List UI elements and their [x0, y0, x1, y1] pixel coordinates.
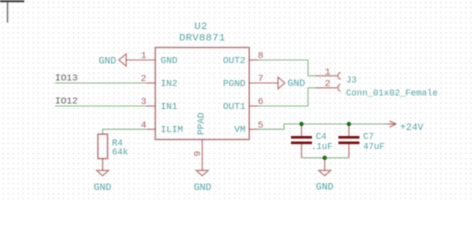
sheet corner marker: [0, 1, 24, 22]
U2 pin 7 (PGND, right): [249, 82, 278, 84]
svg-text:GND: GND: [288, 78, 306, 89]
svg-text:OUT2: OUT2: [223, 55, 246, 66]
power symbol GND arrow (left of pin 1): [119, 54, 126, 66]
wire VM to +24V rail: [258, 124, 386, 129]
ground symbol under R4: [97, 170, 109, 175]
svg-text:5: 5: [258, 119, 264, 130]
wire to ground under caps: [324, 158, 326, 171]
ground symbol under caps: [319, 170, 331, 175]
svg-text:GND: GND: [194, 182, 212, 193]
svg-text:64k: 64k: [112, 148, 128, 158]
svg-text:VM: VM: [234, 124, 246, 135]
wire net IO13 to pin IN2: [55, 82, 146, 84]
svg-text:6: 6: [258, 96, 264, 107]
svg-text:GND: GND: [316, 182, 334, 193]
svg-text:C7: C7: [363, 132, 374, 142]
svg-text:4: 4: [141, 119, 147, 130]
capacitor C7: [338, 124, 359, 158]
wire OUT2 to J3 pin 1: [258, 60, 315, 76]
junction at C7 top: [347, 122, 351, 126]
svg-text:IO12: IO12: [55, 95, 78, 106]
U2 pin 8 (OUT2, right): [249, 59, 258, 61]
svg-text:GND: GND: [99, 55, 117, 66]
svg-text:PPAD: PPAD: [196, 112, 207, 135]
junction at ground tap: [323, 156, 327, 160]
resistor R4: [98, 134, 108, 158]
svg-text:DRV8871: DRV8871: [179, 33, 225, 45]
svg-text:IN1: IN1: [161, 101, 178, 112]
connector J3 pin 2: [316, 87, 338, 89]
svg-text:IN2: IN2: [161, 78, 178, 89]
wire joining C4 and C7 bottoms: [302, 157, 349, 159]
connector J3 pin 1: [316, 75, 338, 77]
power symbol GND arrow (right of pin 7): [278, 77, 285, 89]
svg-text:47uF: 47uF: [363, 142, 385, 152]
svg-text:C4: C4: [316, 132, 327, 142]
svg-text:+24V: +24V: [400, 122, 424, 133]
U2 pin 2 (IN2, left): [146, 82, 155, 84]
svg-text:PGND: PGND: [223, 78, 246, 89]
svg-text:2: 2: [325, 78, 331, 89]
svg-text:2: 2: [141, 73, 147, 84]
power symbol +24V arrow: [387, 121, 396, 127]
junction at C4 top: [299, 122, 303, 126]
ground symbol under PPAD: [196, 170, 208, 175]
svg-text:.1uF: .1uF: [311, 142, 333, 152]
svg-text:1: 1: [141, 50, 147, 61]
U2 pin 4 (ILIM, left): [146, 128, 155, 130]
svg-text:1: 1: [325, 67, 331, 78]
capacitor C4: [291, 124, 312, 158]
U2 pin 6 (OUT1, right): [249, 105, 258, 107]
svg-text:GND: GND: [94, 182, 112, 193]
wire net IO12 to pin IN1: [55, 105, 146, 107]
U2 pin 9 (PPAD, bottom): [201, 140, 203, 171]
U2 pin 5 (VM, right): [249, 128, 258, 130]
svg-text:9: 9: [192, 151, 203, 157]
J3 socket arc pin 1: [338, 72, 341, 79]
svg-text:Conn_01x02_Female: Conn_01x02_Female: [346, 89, 438, 99]
wire ILIM to R4: [103, 129, 147, 134]
svg-text:ILIM: ILIM: [161, 124, 184, 135]
wire R4 to ground: [102, 159, 104, 171]
IC U2 body: [155, 48, 249, 140]
svg-text:8: 8: [258, 50, 264, 61]
svg-text:3: 3: [141, 96, 147, 107]
svg-text:GND: GND: [161, 55, 178, 66]
J3 socket arc pin 2: [338, 84, 341, 91]
wire OUT1 to J3 pin 2: [258, 88, 315, 106]
svg-text:OUT1: OUT1: [223, 101, 246, 112]
U2 pin 3 (IN1, left): [146, 105, 155, 107]
svg-text:IO13: IO13: [55, 72, 78, 83]
U2 pin 1 (GND, left): [126, 59, 156, 61]
svg-text:U2: U2: [194, 21, 207, 33]
svg-text:J3: J3: [346, 75, 357, 85]
svg-text:7: 7: [258, 73, 264, 84]
